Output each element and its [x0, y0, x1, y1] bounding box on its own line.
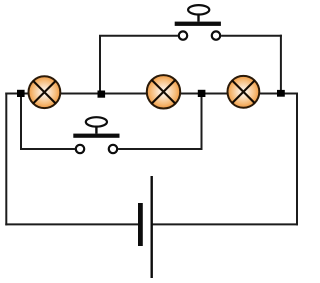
- wire: lower horizontal from J1 riser to S2 left contact: [20, 148, 75, 150]
- push-button switch S2 (lower, bypass across L1 and L2): [73, 117, 119, 153]
- lamp L2: [147, 75, 180, 108]
- wire: bottom left horizontal to battery negative plate: [5, 223, 140, 225]
- wire: vertical from switch S1 right side down to node J4: [280, 35, 282, 94]
- wire: main horizontal line through lamps: [5, 93, 298, 95]
- wire: top horizontal from vertical riser to S1 left contact: [99, 35, 178, 37]
- wire: bottom right horizontal from battery positive plate: [152, 223, 298, 225]
- node J3 (junction between lamp L2 and L3): [198, 90, 206, 97]
- battery negative short plate: [138, 203, 143, 246]
- wire: top horizontal from S1 right contact to right riser: [221, 35, 282, 37]
- wire: vertical from node J1 down to switch S2 level: [20, 94, 22, 151]
- wire: lower horizontal from S2 right contact to J3 riser: [118, 148, 202, 150]
- node J1 (junction before lamp L1): [17, 90, 25, 97]
- wire: right vertical from main line down to battery: [296, 93, 298, 226]
- push-button switch S1 (top): [175, 5, 221, 40]
- node J2 (junction between lamp L1 and L2): [98, 91, 106, 98]
- lamp L1: [29, 76, 61, 108]
- wire: vertical from node J3 down to switch S2 level: [201, 94, 203, 151]
- node J4 (junction after lamp L3): [277, 90, 285, 97]
- battery B1: [140, 176, 151, 278]
- wire: left vertical from main line down to battery: [5, 93, 7, 226]
- wire: vertical from node J2 up to switch S1 left contact level: [99, 36, 101, 94]
- battery positive long plate: [150, 176, 152, 278]
- lamp L3: [228, 76, 260, 108]
